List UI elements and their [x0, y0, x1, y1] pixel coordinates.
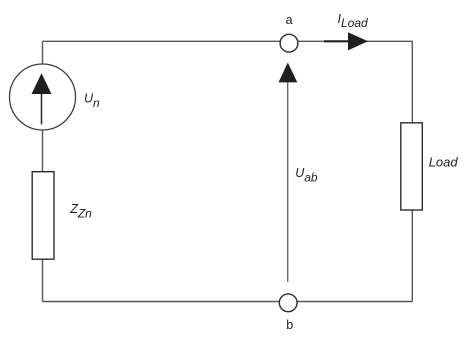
svg-text:Uab: Uab [295, 166, 318, 184]
svg-text:b: b [286, 318, 293, 332]
svg-text:ZZn: ZZn [69, 202, 92, 220]
svg-text:Load: Load [429, 154, 459, 169]
svg-text:Un: Un [84, 92, 100, 110]
svg-text:ILoad: ILoad [338, 12, 369, 30]
svg-text:a: a [286, 13, 293, 27]
